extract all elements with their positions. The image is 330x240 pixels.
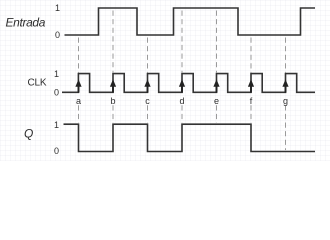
svg-text:0: 0 (54, 88, 59, 98)
clock edge arrows (75, 79, 288, 92)
svg-text:Q: Q (24, 127, 33, 141)
arrow a (75, 79, 81, 87)
svg-text:1: 1 (54, 120, 59, 130)
wire CLK waveform (62, 74, 315, 93)
svg-text:g: g (283, 96, 288, 106)
node d guide (181, 11, 183, 123)
svg-text:e: e (214, 96, 219, 106)
svg-text:1: 1 (55, 3, 60, 13)
svg-text:CLK: CLK (28, 78, 47, 89)
node e guide (216, 11, 218, 123)
node b guide (112, 11, 114, 123)
node a guide (78, 38, 80, 123)
arrow d (179, 79, 185, 87)
svg-text:0: 0 (54, 146, 59, 156)
dashed guide lines (79, 11, 286, 151)
svg-text:a: a (76, 96, 81, 106)
node f guide (250, 38, 252, 123)
svg-text:0: 0 (55, 30, 60, 40)
svg-text:1: 1 (54, 69, 59, 79)
wire Q waveform (64, 124, 316, 151)
arrow e (213, 79, 219, 87)
node g guide (285, 38, 287, 151)
arrow g (282, 79, 288, 87)
arrow c (144, 79, 150, 87)
node c guide (147, 38, 149, 123)
svg-text:Entrada: Entrada (6, 15, 46, 29)
svg-text:c: c (145, 96, 150, 106)
wire Entrada waveform (65, 8, 316, 35)
svg-text:d: d (179, 96, 184, 106)
arrow b (110, 79, 116, 87)
edge labels a-g (76, 96, 288, 106)
svg-text:f: f (250, 96, 253, 106)
arrow f (248, 79, 254, 87)
svg-text:b: b (110, 96, 115, 106)
